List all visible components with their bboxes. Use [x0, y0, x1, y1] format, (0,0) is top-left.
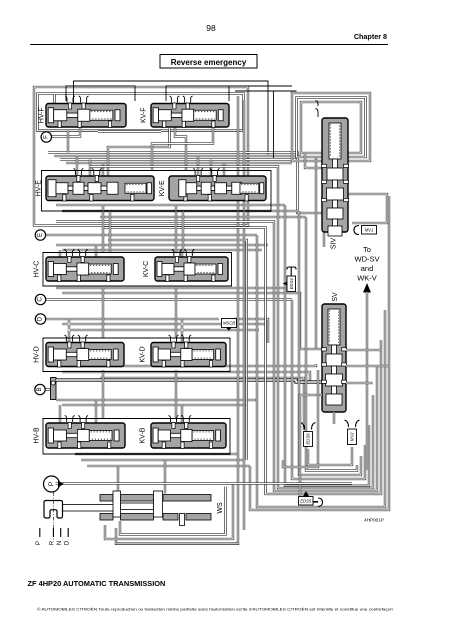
solenoid EDS4 — [287, 276, 296, 292]
hook EDS5 — [313, 501, 318, 503]
wire box around D row — [43, 338, 230, 372]
node D — [35, 314, 45, 324]
selector gate ticks — [40, 528, 68, 537]
wire runs above D row — [62, 319, 266, 342]
wire loop over KV-F top ports — [166, 86, 229, 101]
valve HV-C — [46, 250, 124, 282]
svg-text:© AUTOMOBILES CITROËN Toute re: © AUTOMOBILES CITROËN Toute reproduction… — [37, 607, 393, 612]
wire stubs between rows — [103, 205, 183, 252]
svg-text:E: E — [37, 233, 43, 237]
wire drops into B row tops — [60, 400, 182, 425]
svg-text:WD-SV: WD-SV — [355, 255, 380, 264]
svg-text:KV-B: KV-B — [139, 427, 146, 443]
solenoid MV2 — [348, 429, 357, 445]
selector detent plate — [44, 501, 63, 519]
svg-text:Chapter 8: Chapter 8 — [354, 32, 387, 41]
title box Reverse emergency — [160, 55, 257, 69]
svg-text:EDS4: EDS4 — [289, 278, 294, 290]
wire outer box around F and E rows — [34, 87, 248, 226]
svg-text:D: D — [38, 316, 44, 321]
wire SV right ports to bundle — [346, 349, 381, 351]
svg-text:4HP001P: 4HP001P — [364, 518, 384, 523]
wire box around F row — [38, 94, 244, 131]
svg-text:WK-V: WK-V — [357, 274, 377, 283]
solenoid MSCB — [222, 319, 237, 328]
svg-text:P: P — [36, 541, 42, 545]
svg-text:ZF 4HP20 AUTOMATIC TRANSMISSIO: ZF 4HP20 AUTOMATIC TRANSMISSION — [28, 579, 166, 588]
wire C node run — [46, 298, 293, 300]
wire SIV bottom stub — [323, 232, 325, 247]
hook MV1 — [354, 226, 359, 235]
valve HV-B — [46, 416, 125, 449]
pointer left of EDS4 — [283, 282, 288, 286]
svg-text:KV-C: KV-C — [143, 261, 150, 277]
wire box right of SIV — [348, 194, 387, 223]
wire WS enclosure inner — [120, 487, 226, 535]
svg-text:MSCB: MSCB — [223, 321, 235, 326]
valve SIV — [322, 118, 349, 236]
svg-text:MV2: MV2 — [350, 432, 355, 441]
check valve post at B — [51, 378, 57, 400]
svg-text:SV: SV — [332, 292, 339, 302]
wire nested rects around SIV top — [292, 93, 370, 161]
solenoid EDS6 — [304, 432, 313, 447]
selector letters P R N D — [36, 540, 71, 545]
selector axis dash-dot — [53, 492, 55, 540]
valve KV-F — [151, 96, 229, 128]
wire SIV left port feed — [305, 153, 322, 168]
hook EDS6 — [301, 423, 316, 430]
node C — [35, 294, 45, 304]
wire stubs up from E row tops — [77, 156, 103, 176]
wire runs above B row — [56, 400, 257, 405]
wire runs between F and E rows — [48, 153, 322, 214]
pointer at P node — [58, 481, 64, 487]
wire drops into HV-F top — [53, 94, 55, 108]
svg-text:R: R — [50, 540, 56, 545]
wire WS enclosure outer — [105, 484, 233, 540]
pointer under MSCB — [226, 328, 232, 331]
valve HV-D — [46, 335, 124, 367]
wire box around E row — [42, 171, 272, 212]
wire E node run — [46, 234, 258, 236]
wire runs above C row — [56, 245, 268, 250]
svg-text:C: C — [38, 297, 44, 302]
wire EDS6 MV2 loop — [308, 447, 352, 465]
wire loop over HV-F top ports — [66, 86, 135, 101]
valve HV-E — [46, 169, 154, 202]
wire P node run — [56, 482, 353, 484]
solenoid EDS5 — [299, 497, 314, 506]
node P — [44, 476, 60, 492]
wire vertical pair right of KV column — [116, 96, 238, 544]
svg-text:and: and — [361, 264, 374, 273]
valve KV-E — [169, 169, 266, 202]
wire KV-F top feeders — [229, 85, 292, 87]
svg-text:HV-D: HV-D — [33, 346, 40, 363]
node E — [35, 230, 45, 240]
hooks at SIV top — [316, 101, 319, 118]
svg-text:KV-E: KV-E — [159, 180, 166, 196]
svg-text:HV-F: HV-F — [39, 107, 46, 123]
wire SV bottom to EDS area — [300, 395, 322, 496]
valve KV-C — [155, 250, 228, 282]
svg-text:F: F — [43, 135, 49, 139]
wire middle bundle staircase — [250, 196, 389, 510]
text To WD-SV and WK-V — [355, 245, 380, 283]
wire runs below D row — [56, 364, 322, 430]
valve KV-D — [151, 335, 226, 367]
wire WS bottom run — [116, 543, 238, 545]
svg-text:HV-B: HV-B — [33, 427, 40, 444]
svg-text:EDS5: EDS5 — [300, 498, 312, 503]
node F — [41, 132, 51, 142]
arrow above EDS5 — [303, 491, 309, 497]
valve WS body — [63, 491, 212, 526]
svg-text:HV-E: HV-E — [35, 180, 42, 197]
wire D node run — [46, 318, 220, 320]
svg-text:D: D — [65, 540, 71, 545]
valve SV — [322, 304, 347, 412]
wire drops into C row tops — [60, 245, 182, 259]
svg-text:To: To — [363, 245, 371, 254]
svg-text:WS: WS — [217, 502, 224, 514]
wire runs below E row — [56, 205, 306, 217]
wire runs below C row — [56, 288, 322, 349]
wire HV-F top to far right — [74, 81, 269, 155]
wire B node stub — [44, 388, 52, 390]
wire box around C row — [43, 253, 232, 287]
svg-text:N: N — [57, 541, 63, 545]
wire vertical from top feeder — [273, 91, 275, 158]
svg-text:KV-F: KV-F — [140, 107, 147, 123]
hook MV2 — [345, 420, 360, 427]
wire runs below B row — [75, 454, 250, 466]
wire box around B row — [43, 419, 230, 455]
svg-text:KV-D: KV-D — [139, 346, 146, 362]
valve HV-F — [46, 96, 126, 128]
svg-text:Reverse emergency: Reverse emergency — [171, 58, 247, 67]
svg-text:SIV: SIV — [330, 238, 337, 250]
valve KV-B — [151, 416, 226, 449]
header rule — [30, 44, 388, 46]
wire B node run — [56, 380, 322, 382]
wire run below F row — [52, 126, 81, 137]
arrow to WD-SV — [363, 283, 371, 293]
svg-text:B: B — [37, 387, 43, 391]
svg-text:P: P — [48, 482, 55, 486]
svg-text:HV-C: HV-C — [33, 261, 40, 278]
solenoid MV1 — [362, 226, 377, 235]
svg-text:MV1: MV1 — [365, 227, 374, 232]
svg-text:EDS6: EDS6 — [306, 433, 311, 445]
svg-text:98: 98 — [206, 23, 216, 33]
node B — [35, 384, 45, 394]
bracket above EDS4 — [287, 267, 296, 276]
